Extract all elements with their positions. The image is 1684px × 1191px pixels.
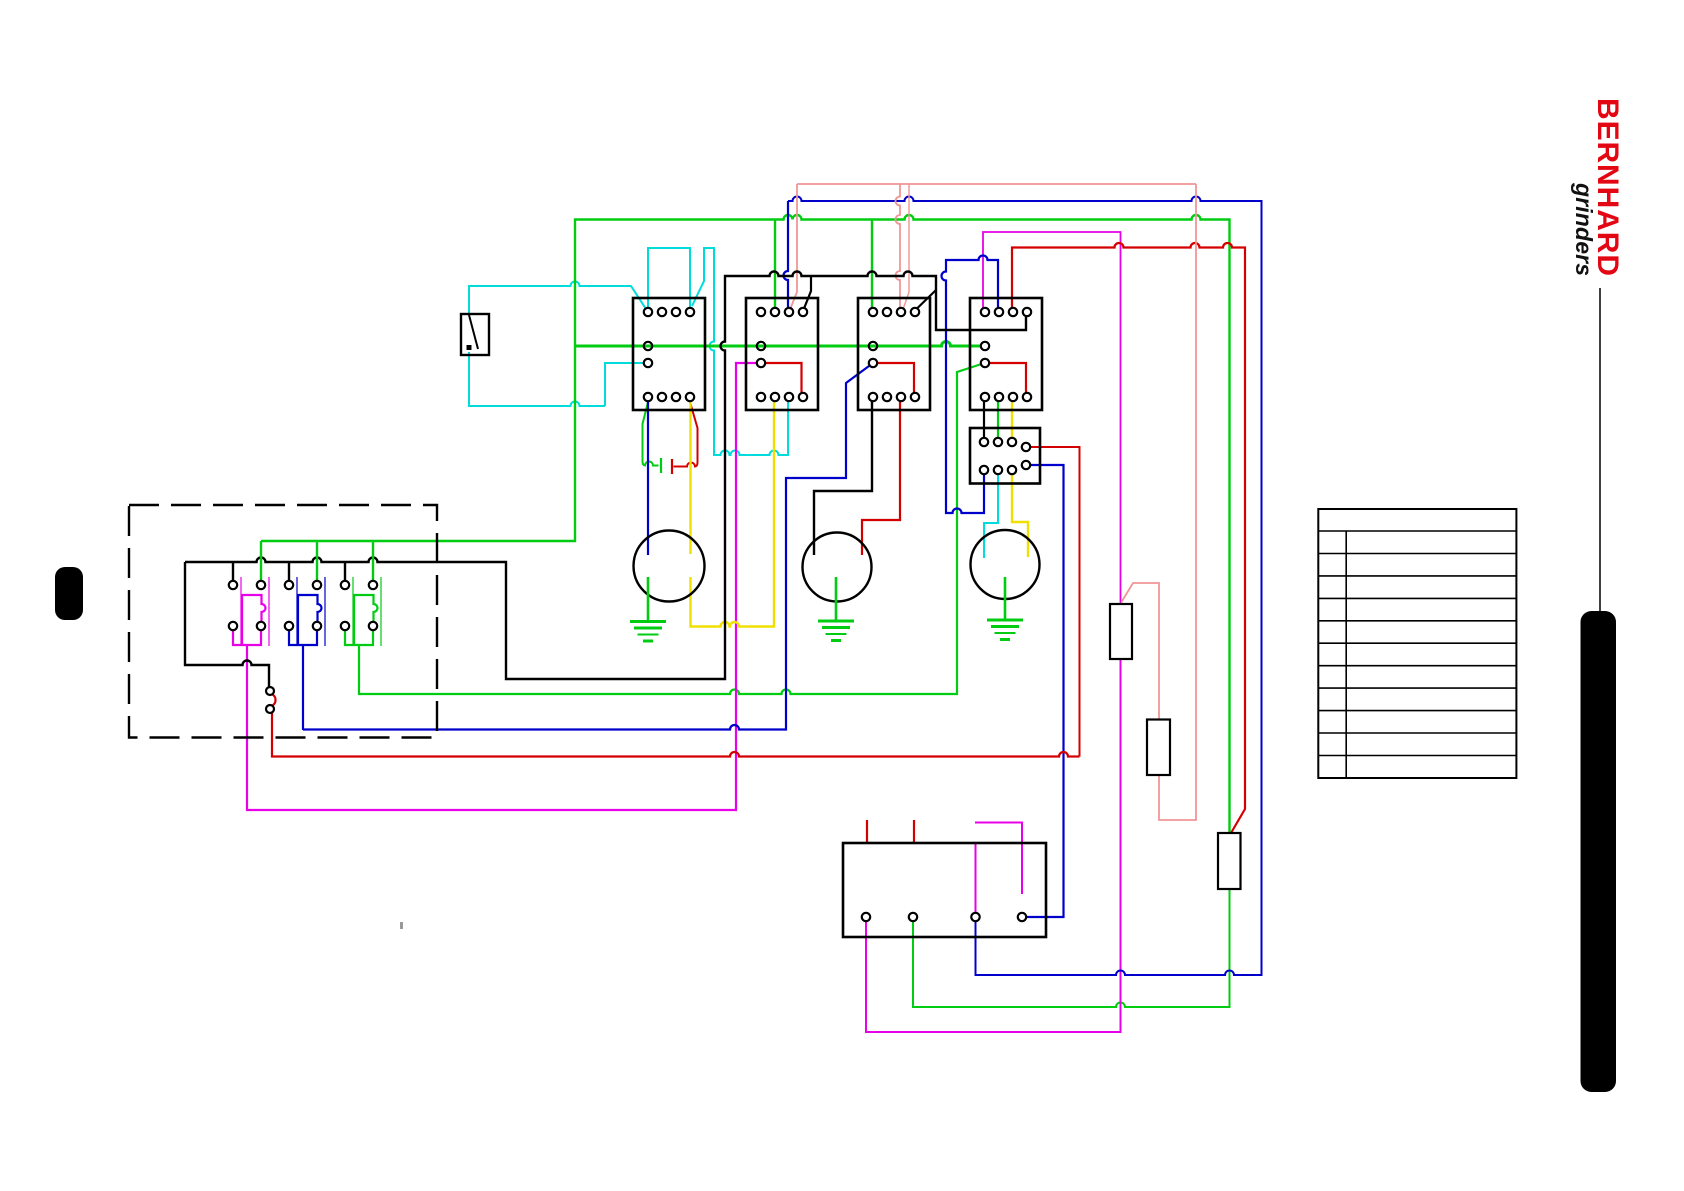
ground motor2 <box>835 577 838 621</box>
terminals K4 bottom <box>981 393 989 401</box>
wire yellow K5 to motor3 right <box>1012 474 1028 557</box>
wire blue drop K2 T3 <box>784 201 789 308</box>
wire yellow motor1 to K2 bottom T2 <box>691 401 775 626</box>
terminals K4 top <box>981 308 989 316</box>
switch S1 blade <box>469 315 478 349</box>
wire green sprout from K1 bottom T1 <box>643 402 659 466</box>
wire cyan switch-bottom to K1 middle contact <box>469 352 605 406</box>
terminals K3 top <box>869 308 877 316</box>
terminals pair connector <box>266 687 274 695</box>
wire yellow K1T4 to motor1 upper <box>689 401 691 554</box>
svg-text:grinders: grinders <box>1571 182 1597 276</box>
red stub bottombox 1 <box>866 820 868 843</box>
wire pink right column to R2 to R1 <box>1122 184 1197 820</box>
wire black K3T1 to motor2 <box>814 401 872 555</box>
contacts K3 middle <box>869 342 877 350</box>
wire blue K3 mid to fuse2 <box>303 366 869 730</box>
motor M2 <box>803 533 872 602</box>
contacts K2 middle <box>757 342 765 350</box>
wire green drop to K2 T2 <box>774 220 776 308</box>
wire green fuse3 to K4 mid circle <box>359 365 980 695</box>
wire green main loop dashedbox-switchcol-topbus <box>261 215 1230 833</box>
wire green drop to K3 T1 <box>871 220 873 308</box>
terminals fuse rows <box>229 581 237 589</box>
fuse F3 green <box>352 577 354 646</box>
wire blue K1T1 to motor1 <box>647 401 649 555</box>
contactor K4 box <box>970 298 1042 410</box>
wire black dashed-box bus <box>185 272 1026 680</box>
resistor R2 <box>1147 720 1170 776</box>
resistor R3 <box>1218 833 1241 889</box>
wire cyan K1 T4 to K2 bottom T3 <box>692 248 788 455</box>
contacts K1 middle <box>644 342 652 350</box>
wire magenta bottom box hook <box>975 823 1022 895</box>
wire green bus through contactor mid contacts <box>575 342 980 346</box>
wire cyan K5 to motor3 left <box>984 474 998 558</box>
terminals K3 bottom <box>869 393 877 401</box>
wire red sprout from K1 bottom T4 <box>674 402 698 467</box>
wire magenta K2 mid to fuse1 <box>247 363 756 810</box>
resistor R1 <box>1110 604 1132 659</box>
red stub bottombox 2 <box>913 820 915 843</box>
wire magenta K4T1 corner to R1 and bottom box c1 <box>983 232 1121 604</box>
wire red K2 mid to T4 <box>764 363 801 393</box>
connector bar green <box>660 458 662 473</box>
wire red K3 mid to T4 <box>876 363 914 393</box>
motor M3 <box>971 530 1040 599</box>
black sidebar <box>1581 611 1617 1092</box>
wire pink top horizontal <box>797 183 1196 185</box>
wire black bus branch K3 T4 <box>917 290 936 309</box>
wire magenta R1 down to bottom box <box>866 659 1121 1032</box>
terminals K5 bottom <box>980 466 988 474</box>
stray mark <box>400 922 403 929</box>
fuse F1 magenta <box>240 577 242 646</box>
wire black K4 to K5 link <box>983 401 985 438</box>
motor M1 <box>634 531 705 602</box>
ground motor1 <box>647 577 650 621</box>
wire pink drop to K2 T3 <box>790 184 797 310</box>
terminal box bottom <box>843 843 1046 937</box>
wire black drops to fuse row <box>233 562 345 581</box>
switch S1 box <box>461 314 489 355</box>
wire red K3T3 to motor2 <box>862 401 900 555</box>
wire red long horizontal from pair connector <box>272 713 1080 757</box>
contacts K4 middle <box>981 342 989 350</box>
divider line vertical <box>1599 288 1601 611</box>
contactor K2 box <box>746 298 818 410</box>
wire blue K5T1 to K4T2 link <box>942 256 999 514</box>
wire blue K5 offset to bottom box c4 <box>1026 465 1063 917</box>
dashed enclosure box <box>129 505 437 738</box>
wire green K4 to K5 link <box>997 401 999 438</box>
wire red K4 mid to T4 <box>988 363 1026 393</box>
wire pink drop to K3 T3 diagonal <box>903 184 909 310</box>
wire cyan jumper K1 T1-T4 <box>648 248 690 308</box>
terminals bottom box <box>862 913 870 921</box>
wire green drops to fuse row <box>261 541 373 581</box>
wire red top bus to K4T3 and R3 <box>1012 243 1245 833</box>
fuse F2 blue <box>296 577 298 646</box>
wire blue top bus K2T3 to right column and bottom box <box>788 197 1262 976</box>
red arc pair connector <box>273 695 276 706</box>
wire pink drop to K3 T3 straight <box>896 184 901 308</box>
terminals K2 top <box>757 308 765 316</box>
auxiliary block K5 box <box>970 428 1040 484</box>
black block left <box>55 567 83 620</box>
contactor K3 box <box>858 298 930 410</box>
wire black to pair connector <box>185 562 269 687</box>
terminals K2 bottom <box>757 393 765 401</box>
wire magenta bottom box stub <box>975 842 977 913</box>
terminals K1 top <box>644 308 652 316</box>
switch S1 contact dot <box>467 345 472 350</box>
wire red K5 offset to long horizontal <box>1030 447 1079 757</box>
wire green R3 to bottom box <box>913 889 1230 1007</box>
contactor K1 box <box>633 298 705 410</box>
wire cyan riser to K1 mid circle <box>605 363 644 406</box>
terminals K5 top <box>980 438 988 446</box>
wire cyan switch-top to K1 terminal <box>469 282 646 314</box>
ground motor3 <box>1004 577 1007 620</box>
connector bar red <box>671 459 673 474</box>
wire yellow K4 to K5 link <box>1011 401 1013 438</box>
terminals K1 bottom <box>644 393 652 401</box>
table chart <box>1318 509 1516 778</box>
wire black bus branch K2 T4 <box>804 276 811 309</box>
